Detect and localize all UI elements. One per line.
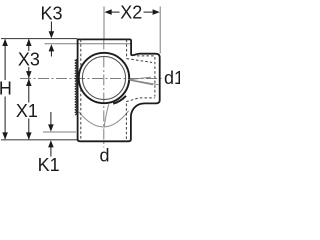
svg-text:K1: K1 (38, 155, 60, 175)
svg-text:X2: X2 (120, 3, 142, 23)
svg-text:d1: d1 (164, 68, 180, 88)
svg-text:d: d (99, 146, 109, 166)
svg-text:X1: X1 (16, 101, 38, 121)
svg-text:H: H (0, 78, 12, 98)
svg-text:X3: X3 (18, 50, 40, 70)
svg-text:K3: K3 (40, 3, 62, 23)
